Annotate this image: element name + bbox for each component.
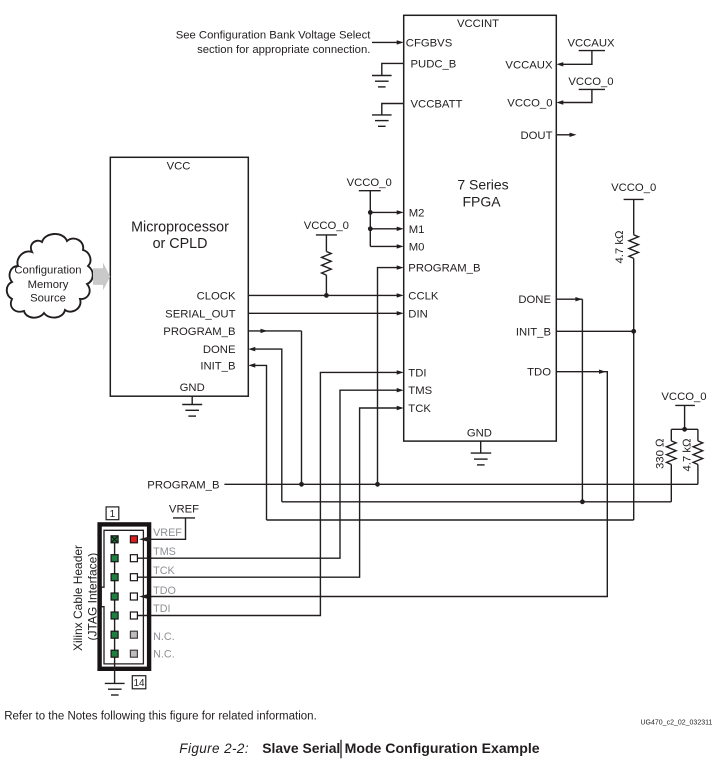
svg-text:TCK: TCK	[153, 565, 175, 577]
svg-text:VCCO_0: VCCO_0	[661, 391, 706, 403]
svg-text:330 Ω: 330 Ω	[654, 438, 666, 469]
svg-text:PROGRAM_B: PROGRAM_B	[408, 263, 480, 275]
junction DONE / bus	[580, 499, 585, 504]
svg-text:VCCO_0: VCCO_0	[347, 177, 392, 189]
ground (PUDC_B)	[372, 76, 392, 87]
wire FPGA DONE out	[556, 298, 582, 300]
svg-text:INIT_B: INIT_B	[516, 326, 551, 338]
svg-text:Refer to the Notes following t: Refer to the Notes following this figure…	[4, 711, 317, 723]
svg-text:TMS: TMS	[153, 546, 176, 558]
svg-text:TDI: TDI	[153, 603, 170, 615]
svg-text:Configuration: Configuration	[14, 265, 81, 277]
svg-text:VCCO_0: VCCO_0	[507, 98, 552, 110]
resistor R2 4.7k (INIT_B pull-up)	[629, 235, 639, 259]
svg-text:SERIAL_OUT: SERIAL_OUT	[165, 308, 235, 320]
wire PUDC_B to ground	[382, 63, 404, 75]
wire micro DONE in	[254, 349, 282, 502]
svg-text:N.C.: N.C.	[153, 648, 175, 660]
pin 1 box label	[106, 507, 119, 520]
gray block arrow	[93, 263, 110, 291]
Configuration Memory Source cloud	[7, 234, 93, 318]
text cursor artifact	[340, 740, 342, 759]
svg-text:UG470_c2_02_032311: UG470_c2_02_032311	[641, 720, 713, 727]
header right pins TMS TCK TDO TDI white	[130, 555, 137, 619]
resistor R4 4.7k (PROGRAM_B pull-up)	[697, 429, 699, 441]
wire SERIAL_OUT to DIN	[248, 312, 398, 314]
JTAG header outer	[100, 524, 150, 668]
svg-text:M1: M1	[409, 224, 425, 236]
svg-text:4.7 kΩ: 4.7 kΩ	[681, 438, 693, 471]
svg-text:VCCO_0: VCCO_0	[304, 220, 349, 232]
wire PROGRAM_B bus	[224, 483, 698, 485]
wire M1	[370, 228, 398, 230]
wire TDI	[137, 372, 398, 615]
svg-text:Source: Source	[30, 293, 66, 305]
svg-text:VCCBATT: VCCBATT	[411, 99, 463, 111]
svg-text:GND: GND	[467, 428, 492, 440]
wire TDO out	[144, 372, 607, 597]
svg-text:Microprocessor: Microprocessor	[131, 220, 229, 236]
wire CFGBVS with arrow	[372, 41, 398, 43]
svg-text:TMS: TMS	[408, 385, 432, 397]
arrowhead CFGBVS	[397, 40, 404, 44]
resistor R1 (CCLK pull-up)	[322, 252, 332, 276]
pin 14 box label	[132, 676, 146, 689]
pin1 X mark	[111, 536, 118, 543]
FPGA U1 block	[404, 15, 557, 441]
header right pins: VREF red	[130, 536, 137, 543]
wire FPGA PROGRAM_B in	[378, 268, 399, 485]
svg-text:VCCAUX: VCCAUX	[567, 38, 615, 50]
svg-text:N.C.: N.C.	[153, 631, 175, 643]
Microprocessor U2 block	[110, 157, 248, 396]
svg-text:14: 14	[133, 678, 145, 689]
svg-text:VREF: VREF	[153, 527, 182, 539]
svg-text:See Configuration Bank Voltage: See Configuration Bank Voltage Select	[176, 29, 372, 41]
wire micro PROGRAM_B out	[248, 330, 301, 332]
svg-text:PROGRAM_B: PROGRAM_B	[163, 326, 235, 338]
svg-text:CFGBVS: CFGBVS	[406, 37, 453, 49]
svg-text:TDI: TDI	[408, 367, 426, 379]
svg-text:CCLK: CCLK	[408, 290, 439, 302]
svg-text:INIT_B: INIT_B	[200, 360, 235, 372]
svg-text:TDO: TDO	[153, 585, 176, 597]
svg-text:DONE: DONE	[518, 294, 551, 306]
svg-text:(JTAG Interface): (JTAG Interface)	[85, 553, 99, 641]
svg-text:1: 1	[110, 509, 116, 520]
wire M0	[370, 245, 398, 247]
resistor R3 330 ohm (DONE pull-up)	[670, 429, 672, 441]
wire VCCBATT to ground	[382, 104, 404, 115]
svg-text:TDO: TDO	[527, 367, 551, 379]
junction M1 tap	[368, 226, 373, 231]
wire CLOCK to CCLK	[248, 294, 398, 296]
svg-text:M0: M0	[409, 241, 425, 253]
ground (VCCBATT)	[372, 115, 392, 126]
wire M2	[370, 211, 398, 213]
svg-text:Slave Serial: Slave Serial	[262, 740, 340, 756]
wire DOUT out	[556, 134, 571, 136]
svg-text:VCCO_0: VCCO_0	[611, 182, 656, 194]
svg-text:FPGA: FPGA	[462, 194, 501, 210]
junction FPGA PROGRAM_B / bus	[375, 482, 380, 487]
wire micro INIT_B in	[254, 365, 267, 520]
svg-text:GND: GND	[180, 382, 205, 394]
svg-text:or CPLD: or CPLD	[153, 236, 208, 252]
junction M2 tap	[368, 210, 373, 215]
svg-text:Figure 2-2:: Figure 2-2:	[179, 741, 249, 756]
wire TCK	[137, 408, 398, 577]
svg-text:PUDC_B: PUDC_B	[411, 58, 457, 70]
junction INIT_B pull-up	[631, 329, 636, 334]
ground (header)	[105, 683, 125, 695]
wire FPGA INIT_B	[556, 330, 633, 332]
svg-text:VCCO_0: VCCO_0	[568, 76, 613, 88]
svg-text:PROGRAM_B: PROGRAM_B	[147, 479, 219, 491]
svg-text:DOUT: DOUT	[520, 130, 552, 142]
svg-text:DIN: DIN	[408, 308, 427, 320]
junction micro PROGRAM_B / bus	[299, 482, 304, 487]
svg-text:M2: M2	[409, 207, 425, 219]
svg-text:VCCAUX: VCCAUX	[505, 59, 553, 71]
JTAG header inner liner with key notch	[101, 530, 143, 664]
wire DONE bus	[282, 501, 672, 503]
svg-text:VREF: VREF	[169, 503, 199, 515]
wire INIT_B bus	[267, 519, 634, 521]
svg-text:section for appropriate connec: section for appropriate connection.	[197, 44, 370, 56]
svg-text:Mode Configuration Example: Mode Configuration Example	[345, 740, 540, 756]
svg-text:Memory: Memory	[28, 279, 69, 291]
svg-text:DONE: DONE	[203, 344, 236, 356]
svg-text:4.7 kΩ: 4.7 kΩ	[614, 230, 626, 263]
header N.C. pins gray	[130, 631, 137, 657]
svg-text:CLOCK: CLOCK	[197, 290, 236, 302]
header ground bus line	[114, 539, 116, 683]
svg-text:7 Series: 7 Series	[457, 176, 508, 192]
svg-text:Xilinx Cable Header: Xilinx Cable Header	[71, 545, 85, 651]
junction VCCO_0 pull-up pair	[682, 427, 687, 432]
header green pins column	[111, 536, 118, 657]
junction CCLK pull-up	[324, 293, 329, 298]
wire TMS	[137, 390, 398, 558]
ground (Micro GND)	[191, 396, 193, 404]
ground (FPGA GND)	[480, 441, 482, 453]
svg-text:VCC: VCC	[167, 161, 191, 173]
svg-text:TCK: TCK	[408, 403, 431, 415]
svg-text:VCCINT: VCCINT	[457, 18, 499, 30]
